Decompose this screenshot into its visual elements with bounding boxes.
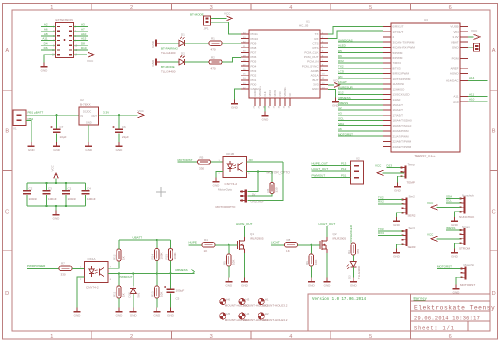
svg-text:TLLG4400: TLLG4400 — [161, 70, 176, 74]
svg-text:C5: C5 — [176, 296, 180, 300]
svg-text:PD11: PD11 — [251, 32, 259, 36]
wire net A11 — [41, 40, 56, 42]
svg-text:P12: P12 — [341, 167, 347, 171]
supply VCC at U3 3.3V — [474, 34, 481, 39]
svg-text:TLLG4400: TLLG4400 — [161, 51, 176, 55]
svg-text:PGM: PGM — [452, 57, 459, 61]
junction at D12 — [132, 272, 134, 274]
U1 left pin GND2 — [241, 88, 249, 90]
svg-text:SER2: SER2 — [408, 214, 416, 218]
wire net SDA — [446, 198, 461, 200]
svg-text:GND: GND — [453, 290, 461, 294]
U3 left pin 8/TX3 — [383, 67, 391, 69]
U1 bottom pin NC — [289, 98, 291, 106]
svg-text:100nF: 100nF — [68, 197, 77, 201]
svg-text:SDA: SDA — [446, 194, 452, 198]
frame column ticks bottom — [91, 331, 93, 339]
wire ground to LED — [160, 61, 179, 63]
svg-text:16/A2/T: 16/A2/T — [393, 108, 404, 112]
svg-text:HUPE_OUT: HUPE_OUT — [236, 222, 253, 226]
svg-text:5V: 5V — [250, 158, 254, 162]
wire OK1B pin5 — [247, 171, 273, 173]
svg-text:GND: GND — [393, 223, 401, 227]
svg-text:NUNCHUK: NUNCHUK — [459, 215, 474, 219]
svg-text:PD4: PD4 — [251, 64, 257, 68]
capacitor C5 100uF — [167, 289, 175, 290]
ground GND at MotorSt — [455, 285, 457, 289]
wire capacitor bank top rail — [27, 182, 86, 184]
wire VCC to Nunchuk — [437, 206, 461, 208]
svg-text:R2: R2 — [211, 55, 215, 59]
svg-text:TX2: TX2 — [378, 195, 384, 199]
svg-text:PD10: PD10 — [251, 37, 259, 41]
svg-text:RX2: RX2 — [378, 200, 384, 204]
svg-text:D12: D12 — [127, 292, 131, 298]
mounting hole H4 — [239, 313, 245, 319]
svg-text:4: 4 — [289, 5, 292, 11]
svg-text:5V1: 5V1 — [137, 292, 141, 297]
svg-text:3.3V: 3.3V — [103, 111, 109, 115]
supply VCC at JP1 — [227, 16, 233, 21]
svg-text:PD1: PD1 — [251, 78, 257, 82]
ground GND at Nunchuk — [454, 217, 456, 221]
svg-text:3.3V: 3.3V — [452, 35, 458, 39]
svg-text:IN: IN — [81, 114, 84, 118]
svg-text:A6: A6 — [338, 127, 342, 131]
U3 right pin VIN — [460, 31, 468, 33]
svg-text:1K: 1K — [122, 256, 126, 260]
ground GND at R6 — [310, 278, 312, 282]
wire net TX2 — [378, 199, 403, 201]
svg-text:D13: D13 — [387, 164, 393, 168]
ground GND at U1 right — [335, 98, 337, 102]
svg-text:UBMESS: UBMESS — [338, 96, 351, 100]
svg-text:330: 330 — [199, 166, 204, 170]
svg-text:GND: GND — [28, 148, 36, 152]
svg-text:RX: RX — [314, 37, 318, 41]
svg-text:10/TX2/PWM: 10/TX2/PWM — [393, 77, 411, 81]
U1 right pin PCM_CLK — [320, 51, 328, 53]
wire R13 to ground — [156, 298, 158, 308]
wire 5V rail down to header — [247, 162, 283, 201]
svg-text:100nF: 100nF — [87, 197, 96, 201]
svg-text:LCD: LCD — [338, 70, 345, 74]
wire Q2 source to ground — [326, 253, 328, 278]
svg-text:GND: GND — [262, 117, 270, 121]
wire EXTENSION pin14 to VCC — [74, 54, 88, 56]
mosfet Q2 IRLR2905 — [319, 241, 321, 249]
title block divider lines — [409, 294, 411, 331]
svg-text:100nF: 100nF — [48, 197, 57, 201]
U1 right pin TX — [320, 33, 328, 35]
U3 right pin AGND — [460, 72, 468, 74]
svg-text:GND1: GND1 — [253, 89, 257, 97]
title block outline — [308, 294, 490, 331]
svg-text:GND: GND — [53, 148, 61, 152]
EXTENSION pin row 2 — [57, 31, 60, 32]
svg-text:15/A1/T: 15/A1/T — [393, 103, 404, 107]
wire net SDA — [338, 125, 383, 127]
svg-text:PASSENGER: PASSENGER — [349, 224, 353, 243]
svg-text:CNY74-2: CNY74-2 — [86, 285, 99, 289]
wire to zener D12 — [132, 273, 134, 286]
ground GND at X1 — [30, 142, 32, 146]
U1 bottom pin CLK — [264, 98, 266, 106]
svg-text:C6: C6 — [122, 125, 126, 129]
svg-text:VCC: VCC — [224, 12, 231, 16]
wire R14 to PWMOUT rail — [156, 261, 158, 274]
svg-text:GND: GND — [153, 313, 161, 317]
svg-text:HUPE_OUT: HUPE_OUT — [312, 161, 329, 165]
svg-text:D8: D8 — [81, 41, 85, 45]
svg-text:1: 1 — [50, 5, 53, 11]
wire X1 to regulator input — [26, 114, 79, 116]
wire to pulldown R6 — [310, 245, 312, 254]
wire net IMESS — [446, 229, 461, 231]
wire R6 to ground — [310, 266, 312, 278]
resistor R5 10K pulldown — [227, 254, 231, 266]
svg-text:10K: 10K — [159, 292, 163, 297]
capacitor C2 — [26, 183, 28, 190]
svg-text:A11: A11 — [42, 37, 47, 41]
U3 left pin 20/A6/PWM — [383, 130, 391, 132]
svg-text:U3: U3 — [424, 18, 428, 22]
wire OK1A pin8 PWMOUT rail — [108, 272, 195, 274]
svg-text:TEENSY_3.1++: TEENSY_3.1++ — [414, 154, 436, 158]
svg-text:TX2: TX2 — [338, 64, 344, 68]
EXTENSION pin row 6 — [57, 49, 60, 50]
wire R7 to OK1A pin1 — [72, 267, 85, 269]
svg-text:A15: A15 — [81, 37, 87, 41]
svg-text:PD6: PD6 — [251, 55, 257, 59]
svg-text:NC: NC — [288, 93, 292, 97]
pin header Strom — [463, 228, 465, 245]
svg-text:A11: A11 — [469, 92, 474, 96]
resistor R6 10K pulldown — [309, 254, 313, 266]
U1 bottom pin MISO — [269, 98, 271, 106]
wire rail to VCC — [55, 179, 57, 184]
svg-text:MOTORST: MOTORST — [460, 283, 475, 287]
wire OK1A pin7 up to R12 — [108, 261, 119, 268]
svg-text:10K: 10K — [314, 260, 318, 265]
zener diode D12 — [130, 289, 136, 294]
svg-text:PD5: PD5 — [251, 60, 257, 64]
svg-text:H2: H2 — [265, 312, 269, 316]
U3 left pin 18/A4/T/SDA0 — [383, 119, 391, 121]
svg-text:VCC: VCC — [375, 164, 382, 168]
U3 right pin A11 — [460, 96, 468, 98]
wire junction down to header — [247, 172, 258, 192]
wire C5 to ground — [170, 293, 172, 307]
wire EXTENSION pin13 to ground — [44, 55, 56, 63]
svg-text:4/CAN-RX-PWM: 4/CAN-RX-PWM — [393, 46, 416, 50]
svg-text:SCL: SCL — [446, 199, 452, 203]
svg-text:X2: X2 — [356, 156, 360, 160]
svg-text:H4: H4 — [246, 312, 250, 316]
ground GND at EXTENSION — [43, 63, 45, 67]
svg-text:MotorOpto: MotorOpto — [218, 187, 233, 191]
svg-text:AD0B: AD0B — [311, 69, 319, 73]
svg-text:12/MISO: 12/MISO — [393, 87, 406, 91]
svg-text:AREF: AREF — [450, 66, 458, 70]
svg-text:9/RX2/PWM: 9/RX2/PWM — [393, 72, 410, 76]
ground GND at Strom — [454, 249, 456, 253]
ground GND at Temp — [397, 183, 399, 187]
pin header Nunchuk — [463, 197, 465, 214]
svg-text:AD1A: AD1A — [311, 73, 319, 77]
optocoupler OK1A CNY74-2 — [85, 262, 109, 283]
wire X1 pin2 to ground — [26, 120, 31, 142]
wire net A2 — [338, 109, 383, 111]
U1 right pin PCM_SYNC — [320, 65, 328, 67]
wire R3 to LED D3 — [352, 255, 354, 262]
svg-text:3/CAN-TX/PWM: 3/CAN-TX/PWM — [393, 40, 415, 44]
svg-text:2MESS: 2MESS — [338, 101, 348, 105]
U1 left pin PD11 — [241, 33, 249, 35]
svg-text:PCM_IN: PCM_IN — [307, 60, 318, 64]
svg-text:CLK: CLK — [263, 91, 267, 96]
capacitor C7 — [53, 129, 61, 130]
svg-text:VCC: VCC — [427, 201, 434, 205]
svg-text:6: 6 — [449, 5, 452, 11]
svg-text:Temp: Temp — [408, 162, 416, 166]
wire net A6 — [41, 30, 56, 32]
wire U1 3V3 to VCC — [328, 84, 334, 86]
svg-text:JP1: JP1 — [204, 27, 210, 31]
svg-text:GND: GND — [116, 313, 124, 317]
wire U1 GND2 to ground — [235, 89, 242, 100]
mounting hole H6 — [220, 298, 226, 304]
U3 left pin 14/A0 — [383, 99, 391, 101]
wire D13 to Temp header — [387, 167, 405, 169]
svg-text:Q1: Q1 — [250, 232, 254, 236]
svg-text:PCM_SYNC: PCM_SYNC — [302, 64, 320, 68]
U1 right pin PCM_OUT — [320, 56, 328, 58]
svg-text:GND: GND — [116, 148, 124, 152]
svg-text:A3: A3 — [338, 111, 342, 115]
U3 left pin 15/A1/T — [383, 104, 391, 106]
wire net SCL — [446, 202, 461, 204]
svg-text:LICHT_OUT: LICHT_OUT — [319, 222, 336, 226]
supply VCC arrow at Temp — [377, 170, 384, 175]
capacitor C4 — [85, 183, 87, 190]
U3 left pin 11/MOSI — [383, 83, 391, 85]
U1 left pin PD10 — [241, 38, 249, 40]
EXTENSION pin row 5 — [57, 45, 60, 46]
wire U3 A10 to label — [468, 101, 488, 103]
supply VCC at U1 3V3 — [334, 83, 340, 88]
sheet center marker — [156, 191, 166, 193]
U1 left pin PD2 — [241, 74, 249, 76]
svg-text:PWMOUT: PWMOUT — [119, 275, 133, 279]
wire R6 to header — [247, 194, 272, 197]
ground GND at D12 — [132, 308, 134, 312]
wire net LCD — [338, 72, 383, 74]
U3 right pin 3.3V — [460, 36, 468, 38]
wire net A3 — [74, 26, 89, 28]
junction on pin5 wire — [257, 170, 259, 172]
U3 left pin 23/A9/T/PWM — [383, 146, 391, 148]
svg-text:B-78XX: B-78XX — [80, 102, 91, 106]
svg-text:A10: A10 — [469, 98, 475, 102]
junction at gate resistor R6 — [310, 244, 312, 246]
svg-text:A: A — [5, 48, 9, 54]
wire MOTORST to R5 — [178, 161, 198, 163]
wire net A7 — [74, 30, 89, 32]
svg-text:RX3: RX3 — [378, 231, 384, 235]
ground GND at OK1A pin2 — [76, 308, 78, 312]
U3 left pin 7/RX3 — [383, 62, 391, 64]
svg-text:MOTOROPTO: MOTOROPTO — [216, 205, 236, 209]
svg-text:22/A8/T/PWM: 22/A8/T/PWM — [393, 140, 412, 144]
svg-text:AGND: AGND — [450, 72, 460, 76]
svg-text:470: 470 — [211, 48, 216, 52]
svg-text:H1: H1 — [265, 298, 269, 302]
svg-text:PD0: PD0 — [251, 83, 257, 87]
connector X1 — [13, 110, 26, 126]
svg-text:VBAT: VBAT — [451, 40, 459, 44]
resistor R13 10K vertical — [155, 286, 159, 298]
U3 left pin 22/A8/T/PWM — [383, 140, 391, 142]
ground GND at Ser3 — [396, 249, 398, 253]
wire net RX3 — [378, 234, 403, 236]
U1 left pin PD9 — [241, 42, 249, 44]
wire MOTORST to header — [437, 268, 462, 270]
EXTENSION pin row 4 — [57, 40, 60, 41]
module U1 HC_05 body — [249, 30, 320, 98]
wire net D4 — [41, 44, 56, 46]
wire net SCL — [338, 119, 383, 121]
svg-text:LIGHT: LIGHT — [338, 80, 347, 84]
wire net UBMESS — [338, 99, 383, 101]
svg-text:Elektroskate Teensy: Elektroskate Teensy — [414, 304, 495, 311]
svg-text:R7: R7 — [61, 262, 65, 266]
frame row ticks right — [490, 89, 498, 91]
voltage regulator U2 — [79, 107, 99, 125]
ground GND at capacitor bank — [55, 211, 57, 215]
svg-text:TX3: TX3 — [378, 227, 384, 231]
svg-text:RTS: RTS — [313, 46, 319, 50]
U3 left pin 1/TX1/T — [383, 31, 391, 33]
svg-text:Version 1.0 17.06.2014: Version 1.0 17.06.2014 — [312, 297, 367, 302]
EXTENSION origin marker — [64, 39, 66, 41]
wire net PURESUR — [338, 88, 383, 90]
U1 right pin PCM_IN — [320, 60, 328, 62]
svg-text:D12: D12 — [338, 91, 344, 95]
wire Strom pin4 to ground — [455, 243, 461, 248]
wire to pulldown R5 — [228, 245, 230, 254]
led D2 BT-MODE — [179, 59, 185, 65]
resistor R4 1K — [202, 243, 215, 247]
svg-text:RX2: RX2 — [338, 59, 344, 63]
wire net A15 — [74, 40, 89, 42]
svg-text:LICHT: LICHT — [271, 241, 280, 245]
svg-text:VUSB: VUSB — [450, 25, 458, 29]
svg-text:10µF: 10µF — [60, 135, 67, 139]
svg-text:A: A — [492, 48, 496, 54]
svg-text:11/MOSI: 11/MOSI — [393, 82, 405, 86]
U3 right pin PGM — [460, 58, 468, 60]
wire R11 to ground — [118, 298, 120, 308]
U1 left pin PD4 — [241, 65, 249, 67]
wire LICHT_OUT to Q2 drain — [326, 226, 328, 237]
svg-text:MOSI: MOSI — [273, 90, 277, 97]
svg-text:A11: A11 — [453, 95, 458, 99]
U3 left pin 16/A2/T — [383, 109, 391, 111]
ground GND at OK1B — [215, 178, 217, 182]
pin header Ser2 — [405, 198, 407, 215]
U3 right pin VUSB — [460, 26, 468, 28]
svg-text:21/A7/PWM: 21/A7/PWM — [393, 134, 410, 138]
wire U3 3.3V to VCC — [468, 36, 474, 38]
wire net RX2 — [378, 203, 403, 205]
wire OK1B pin2 to ground — [216, 172, 223, 178]
wire rail to ground — [55, 206, 57, 211]
resistor R1 470 — [209, 41, 222, 45]
wire HUPE_OUT to Q1 drain — [244, 226, 246, 237]
supply VCC at capacitor bank — [54, 173, 59, 179]
svg-text:VIN: VIN — [453, 30, 458, 34]
wire D12 to ground — [132, 294, 134, 308]
frame column ticks top — [91, 4, 93, 11]
ground GND at R13 — [156, 308, 158, 312]
U1 right pin 3V3 — [320, 83, 328, 85]
U3 left pin 0/RX1/T — [383, 26, 391, 28]
U3 right pin VBAT — [460, 41, 468, 43]
led D1 BT-PAIRING — [179, 40, 185, 46]
svg-text:VBUSD-: VBUSD- — [283, 87, 287, 97]
wire R8 to gate — [298, 244, 321, 246]
wire OK1A pin2 to ground — [77, 277, 85, 308]
svg-text:IMESS: IMESS — [446, 226, 455, 230]
svg-text:1/TX1/T: 1/TX1/T — [393, 30, 404, 34]
wire U1 bottom GND1 to ground — [264, 106, 266, 112]
mounting hole H2 — [258, 313, 264, 319]
wire ground to LED — [160, 42, 179, 44]
svg-text:R15: R15 — [164, 254, 168, 260]
wire D3 to ground — [352, 267, 354, 278]
capacitor C6 — [115, 129, 123, 130]
svg-text:IRLR2905: IRLR2905 — [333, 237, 347, 241]
svg-text:GND: GND — [393, 254, 401, 258]
svg-text:1K: 1K — [122, 293, 126, 297]
svg-text:C: C — [5, 210, 9, 216]
svg-text:TLLG4400: TLLG4400 — [357, 265, 361, 279]
wire net D6 — [338, 57, 383, 59]
wire VCC to Strom — [437, 238, 461, 240]
U1 right pin GND — [320, 88, 328, 90]
U1 left pin PD5 — [241, 60, 249, 62]
svg-text:Strom: Strom — [462, 225, 471, 229]
ground GND rotated at LED R1 — [156, 42, 160, 44]
svg-text:BT-MODE: BT-MODE — [161, 65, 175, 69]
svg-text:PD8: PD8 — [251, 46, 257, 50]
wire net LIGHT — [338, 83, 383, 85]
wire net TX2 — [338, 67, 383, 69]
U1 left pin PD7 — [241, 51, 249, 53]
svg-text:GND: GND — [53, 216, 61, 220]
U3 right pin A10 — [460, 101, 468, 103]
ground GND at R5 — [228, 278, 230, 282]
svg-text:GND: GND — [452, 46, 460, 50]
svg-text:Barney: Barney — [414, 297, 428, 301]
ground GND at C6 — [118, 142, 120, 146]
svg-text:CTS: CTS — [313, 41, 319, 45]
svg-text:D6: D6 — [338, 54, 342, 58]
svg-text:BT-PAIRING: BT-PAIRING — [161, 46, 178, 50]
wire to capacitor C6 — [118, 115, 120, 128]
svg-text:Nunchuk: Nunchuk — [462, 194, 474, 198]
